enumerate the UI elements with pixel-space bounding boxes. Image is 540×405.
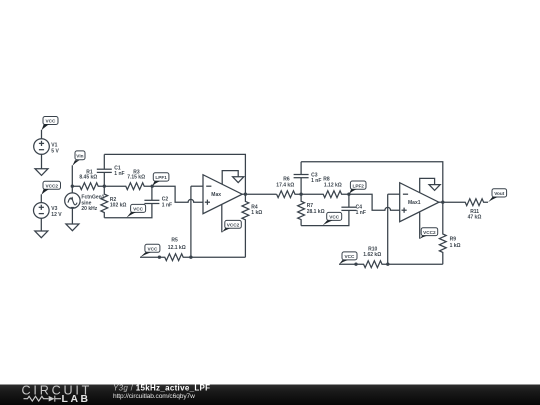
ground — [35, 169, 48, 176]
node LPF1 junction — [151, 185, 154, 188]
svg-text:12 V: 12 V — [51, 212, 62, 218]
wire op-amp - input — [191, 185, 203, 187]
svg-text:Max: Max — [211, 192, 221, 198]
capacitor C2 — [144, 186, 172, 208]
wire — [71, 208, 73, 224]
net flag VCC2 — [222, 220, 242, 232]
svg-text:28.1 kΩ: 28.1 kΩ — [307, 209, 325, 215]
net flag VCC2 — [420, 228, 438, 239]
svg-text:VCC2: VCC2 — [45, 184, 58, 189]
capacitor C4 — [341, 194, 365, 216]
svg-text:VCC: VCC — [147, 247, 158, 252]
net flag VCC2 — [41, 181, 60, 195]
svg-text:Y3g / 15kHz_active_LPF: Y3g / 15kHz_active_LPF — [113, 384, 210, 393]
svg-text:VCC: VCC — [46, 119, 57, 124]
svg-text:1 nF: 1 nF — [162, 202, 172, 208]
node op1 output junction — [244, 193, 247, 196]
op-amp U2 positive supply arrow — [420, 178, 441, 192]
resistor R1 — [72, 169, 104, 189]
svg-text:Max1: Max1 — [408, 200, 421, 206]
svg-text:R5: R5 — [171, 238, 178, 244]
wire inverting feedback vertical 2 — [387, 194, 389, 264]
wire op-amp 2 - input — [388, 193, 400, 195]
wire to op-amp + input with hop — [152, 186, 203, 202]
net flag VCC — [339, 252, 357, 265]
wire — [41, 130, 43, 139]
svg-text:1.62 kΩ: 1.62 kΩ — [363, 252, 381, 258]
resistor R3 — [104, 169, 152, 189]
resistor R11 — [443, 199, 488, 221]
wire op2 output — [439, 201, 443, 203]
resistor R10 — [339, 246, 443, 267]
resistor R5 — [140, 238, 245, 261]
svg-text:102 kΩ: 102 kΩ — [110, 202, 127, 208]
net flag VCC — [140, 244, 160, 257]
net flag Vin — [72, 151, 85, 166]
node op2 output junction — [441, 201, 444, 204]
svg-text:LPF2: LPF2 — [352, 183, 364, 188]
banner background — [0, 385, 540, 405]
resistor R6 — [276, 176, 301, 197]
svg-text:LPF1: LPF1 — [155, 175, 167, 180]
net flag VCC — [42, 117, 59, 131]
resistor R7 — [298, 194, 325, 225]
resistor R4 — [242, 194, 262, 257]
node B junction — [299, 193, 302, 196]
svg-text:Vin: Vin — [76, 154, 83, 159]
net flag Vout — [488, 189, 507, 203]
CircuitLab logo resistor-diode glyph — [24, 396, 62, 402]
svg-text:47 kΩ: 47 kΩ — [468, 215, 482, 221]
wire — [41, 154, 43, 168]
node junction — [386, 263, 389, 266]
op-amp U1 Max — [203, 175, 242, 214]
svg-text:VCC: VCC — [345, 254, 356, 259]
svg-text:R7: R7 — [307, 203, 314, 209]
wire inverting feedback vertical — [190, 186, 192, 257]
op-amp U2 negative supply wire — [419, 212, 421, 238]
resistor R2 — [101, 186, 127, 218]
node junction — [189, 256, 192, 259]
node A junction — [103, 185, 106, 188]
op-amp U2 Max1 — [400, 183, 439, 222]
wire feedback top rail 1 — [104, 154, 245, 194]
svg-text:12.1 kΩ: 12.1 kΩ — [168, 245, 186, 251]
op-amp U1 negative supply wire — [221, 204, 223, 232]
node LPF2 junction — [347, 193, 350, 196]
svg-text:1 kΩ: 1 kΩ — [450, 243, 461, 249]
wire — [71, 165, 73, 193]
net flag LPF1 — [152, 173, 169, 186]
wire bottom bias rail 2 — [301, 210, 349, 225]
svg-text:VCC: VCC — [329, 215, 340, 220]
svg-text:http://circuitlab.com/c6qby7w: http://circuitlab.com/c6qby7w — [113, 393, 195, 400]
voltage source V1 — [34, 139, 60, 155]
net flag LPF2 — [349, 181, 366, 194]
resistor R9 — [439, 202, 460, 264]
capacitor C1 — [97, 154, 125, 186]
svg-text:1 nF: 1 nF — [356, 210, 366, 216]
svg-text:LAB: LAB — [62, 394, 91, 405]
svg-text:VCC2: VCC2 — [227, 223, 240, 228]
node junction — [158, 256, 161, 259]
node junction — [354, 263, 357, 266]
svg-text:5 V: 5 V — [51, 148, 59, 154]
svg-text:7.15 kΩ: 7.15 kΩ — [127, 175, 145, 181]
function generator FctnGen1 — [65, 193, 105, 212]
wire — [40, 194, 42, 202]
svg-text:1.12 kΩ: 1.12 kΩ — [324, 182, 342, 188]
svg-text:1 kΩ: 1 kΩ — [251, 210, 262, 216]
svg-text:VCC: VCC — [133, 207, 144, 212]
ground — [66, 224, 79, 231]
svg-text:20 kHz: 20 kHz — [81, 206, 97, 212]
net flag VCC — [322, 212, 341, 225]
wire — [40, 218, 42, 231]
wire op1 output — [242, 193, 245, 195]
voltage source V3 — [34, 203, 63, 219]
svg-text:1 nF: 1 nF — [114, 171, 124, 177]
svg-text:Vout: Vout — [494, 191, 505, 196]
svg-text:8.45 kΩ: 8.45 kΩ — [79, 175, 97, 181]
svg-text:VCC2: VCC2 — [423, 230, 436, 235]
svg-text:1 nF: 1 nF — [311, 178, 321, 184]
net flag VCC — [126, 204, 145, 218]
ground — [35, 231, 48, 238]
wire feedback top rail 2 — [301, 162, 443, 202]
node junction — [71, 185, 74, 188]
svg-text:17.4 kΩ: 17.4 kΩ — [276, 182, 294, 188]
svg-text:R9: R9 — [450, 237, 457, 243]
wire bottom bias rail 1 — [104, 204, 152, 218]
resistor R8 — [301, 176, 349, 197]
wire to op-amp 2 + input with hop — [349, 194, 400, 210]
wire op1 output to stage 2 — [245, 193, 276, 195]
capacitor C3 — [294, 162, 322, 194]
op-amp U1 positive supply arrow — [222, 171, 244, 185]
